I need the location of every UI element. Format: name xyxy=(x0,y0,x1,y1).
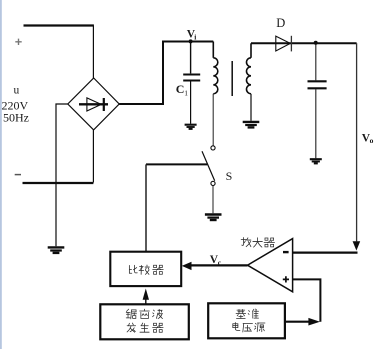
svg-text:u: u xyxy=(14,85,20,97)
svg-text:50Hz: 50Hz xyxy=(3,111,29,125)
svg-text:S: S xyxy=(226,169,233,183)
svg-text:C: C xyxy=(176,82,185,96)
svg-text:1: 1 xyxy=(184,89,188,98)
svg-text:o: o xyxy=(370,136,374,145)
svg-text:D: D xyxy=(276,16,285,30)
svg-text:i: i xyxy=(194,32,196,41)
